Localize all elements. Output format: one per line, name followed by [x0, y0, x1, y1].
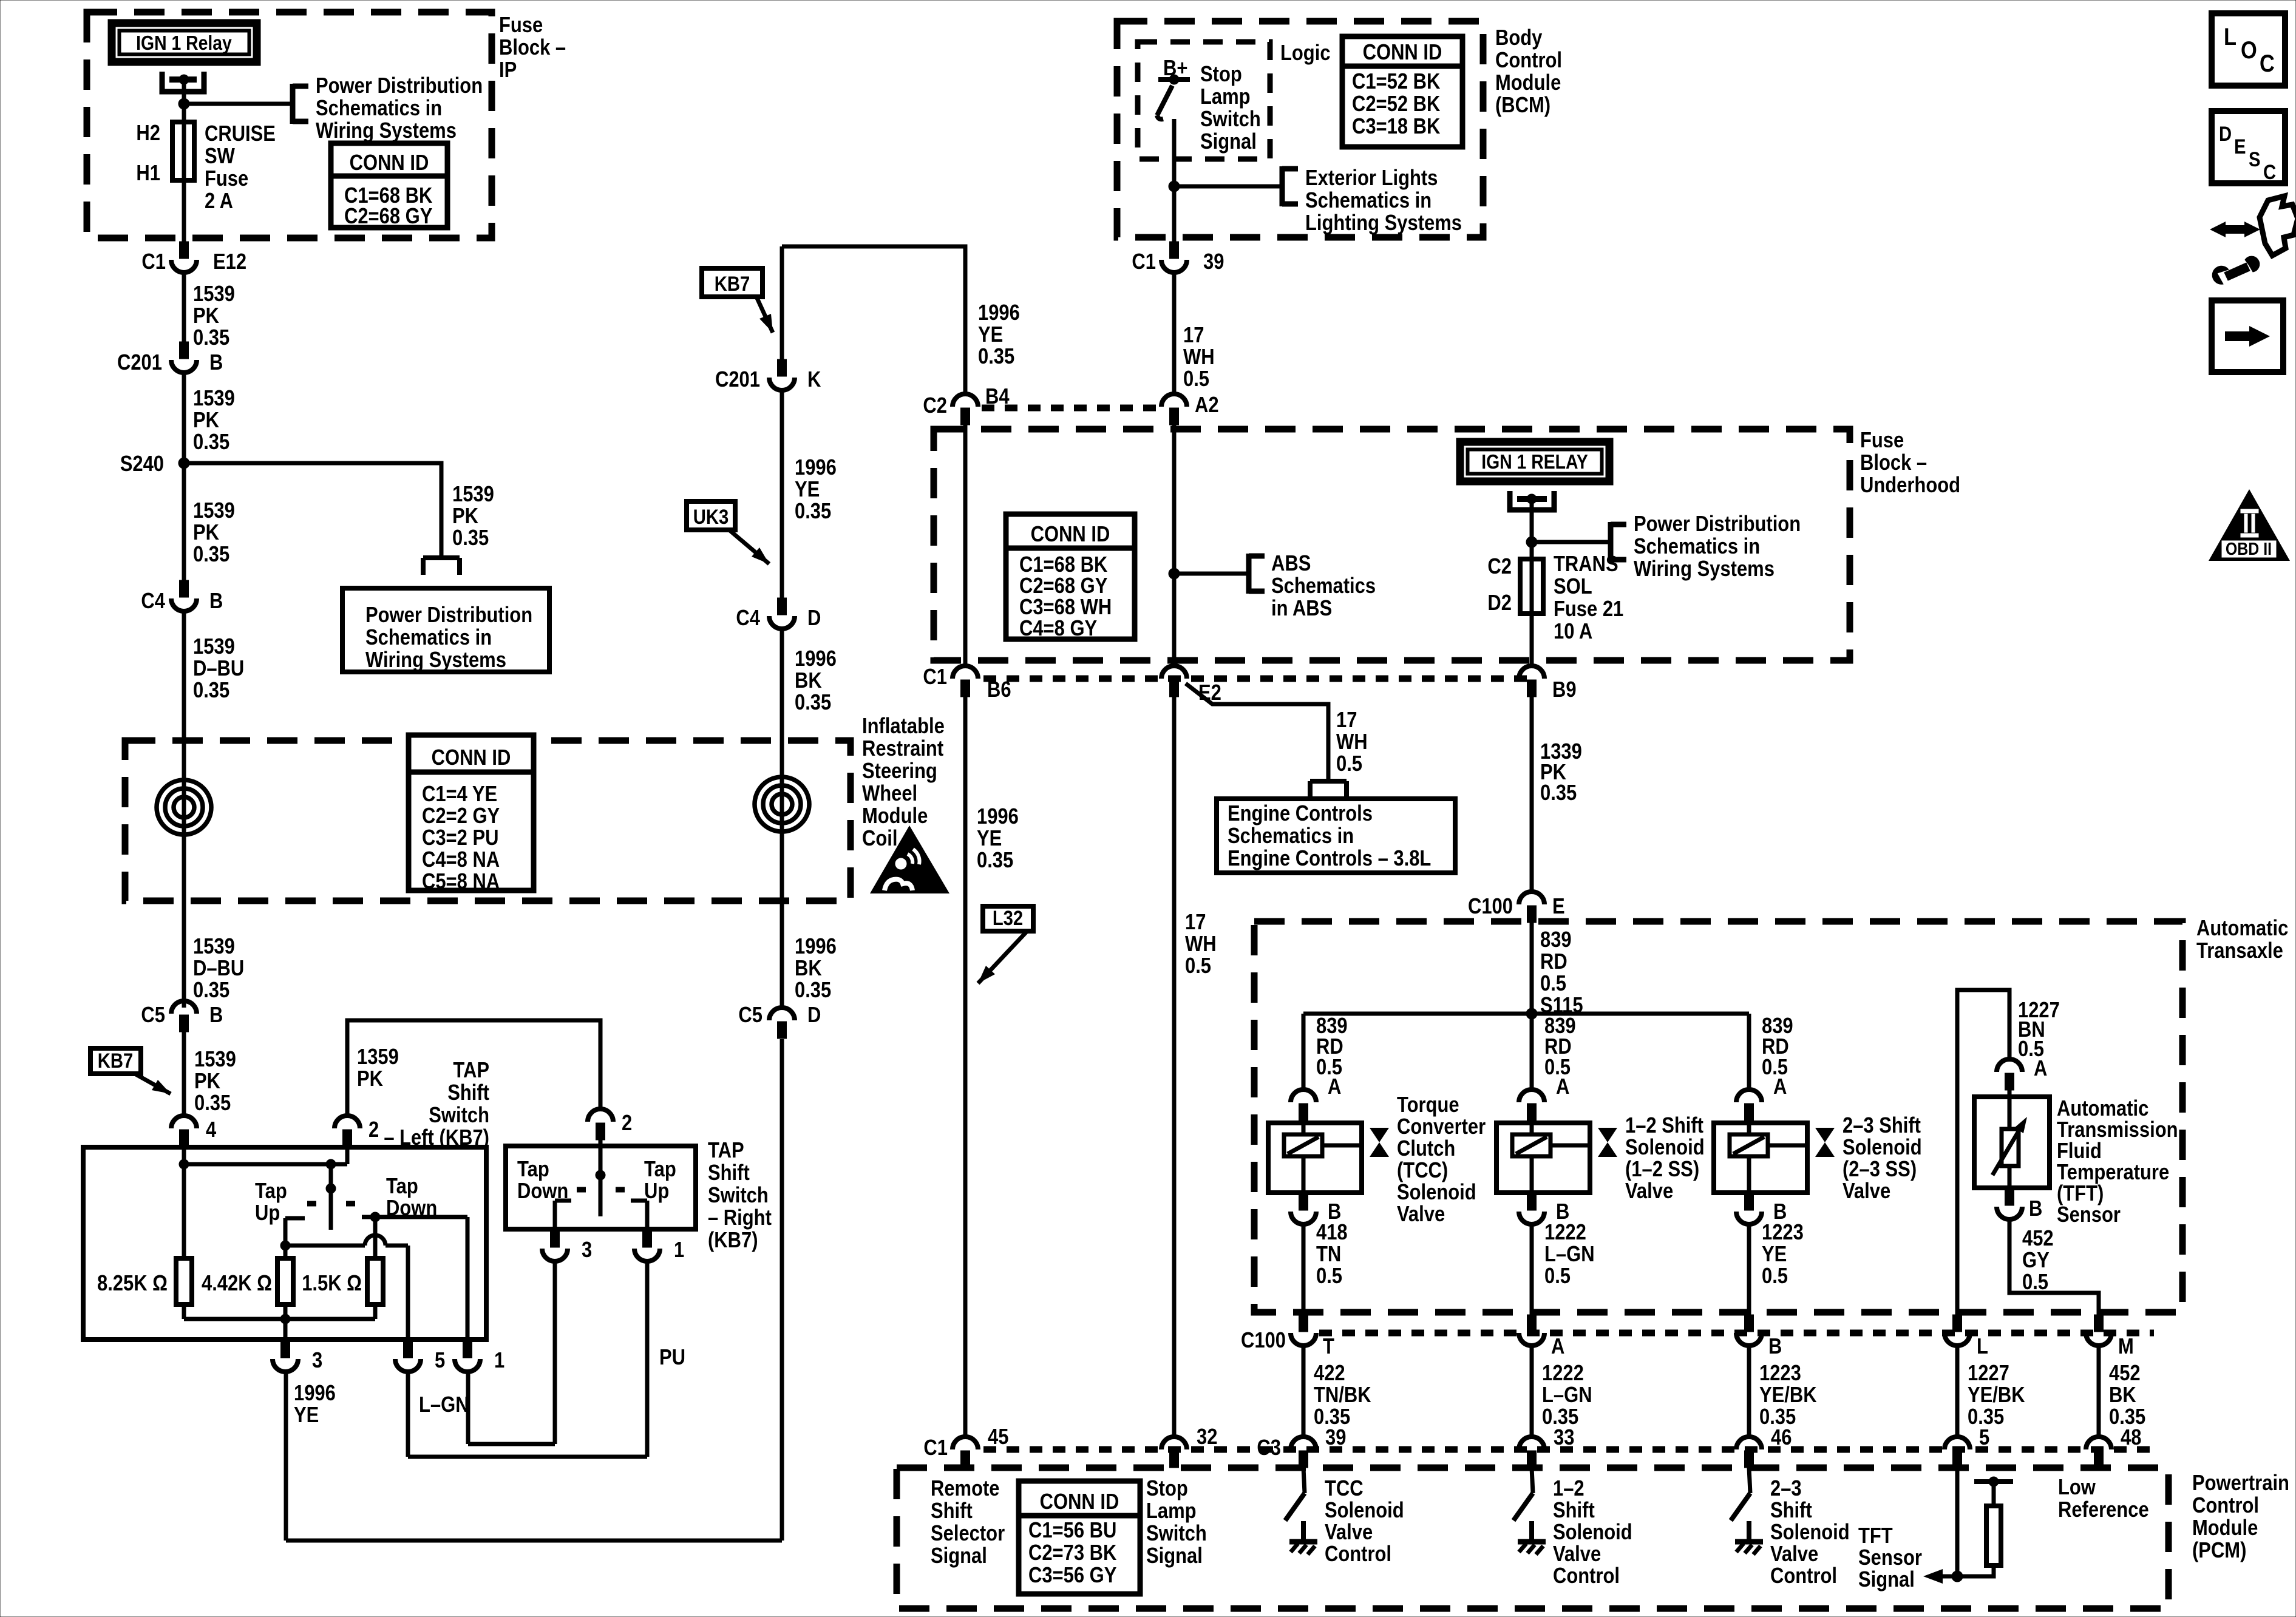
wire Tap Up contact to pin 5 with hop: [285, 1235, 408, 1341]
svg-text:0.35: 0.35: [978, 345, 1014, 369]
svg-text:Fuse: Fuse: [205, 167, 248, 191]
conn-id table SRS coil: [409, 735, 534, 894]
wire KB7 riser C5D down to bottom: [780, 1039, 784, 1541]
svg-text:RD: RD: [1540, 950, 1567, 974]
wire S115 rail: [1303, 1012, 1749, 1016]
svg-text:Reference: Reference: [2058, 1498, 2149, 1522]
svg-text:L: L: [2224, 23, 2237, 50]
svg-text:Power Distribution: Power Distribution: [365, 603, 532, 628]
connector B9: [1519, 666, 1577, 702]
svg-text:Restraint: Restraint: [862, 737, 943, 761]
svg-text:C4=8 NA: C4=8 NA: [422, 848, 500, 872]
wire C4 to SRS coil box: [182, 611, 186, 742]
label 17 WH 0.5 (below E2): [1185, 910, 1217, 978]
icon OBD II triangle: [2209, 489, 2290, 561]
svg-text:1: 1: [674, 1238, 684, 1263]
tag UK3 with arrow: [687, 501, 769, 564]
svg-text:Signal: Signal: [1200, 130, 1257, 154]
svg-text:A2: A2: [1195, 393, 1219, 418]
svg-text:UK3: UK3: [693, 505, 729, 529]
icon arrow box: [2212, 300, 2283, 372]
dashed box Automatic Transaxle: [1254, 921, 2182, 1312]
svg-text:B9: B9: [1552, 678, 1577, 702]
svg-text:Solenoid: Solenoid: [1397, 1181, 1476, 1205]
svg-text:Valve: Valve: [1397, 1202, 1445, 1227]
connector C3 pin 48: [2086, 1426, 2141, 1468]
svg-text:422: 422: [1314, 1361, 1345, 1386]
svg-text:1539: 1539: [193, 282, 235, 307]
icon car with arrows and wrench: [2210, 196, 2296, 284]
svg-text:Converter: Converter: [1397, 1115, 1486, 1139]
svg-text:Control: Control: [1495, 49, 1562, 73]
svg-text:E12: E12: [213, 250, 246, 274]
svg-text:C3: C3: [1257, 1436, 1281, 1460]
svg-text:1223: 1223: [1759, 1361, 1801, 1386]
conn-id table PCM: [1019, 1481, 1140, 1594]
wire B to C100 (2-3 Shift Solenoid Valve): [1747, 1224, 1751, 1316]
svg-text:WH: WH: [1185, 932, 1217, 957]
svg-text:(KB7): (KB7): [708, 1229, 758, 1253]
contact Tap Up: [285, 1218, 305, 1258]
svg-text:Control: Control: [1770, 1564, 1837, 1588]
label Tap Up (right box): [644, 1158, 676, 1204]
svg-text:IGN 1 Relay: IGN 1 Relay: [136, 32, 232, 55]
svg-text:Schematics: Schematics: [1271, 574, 1376, 598]
svg-text:3: 3: [582, 1238, 592, 1263]
wire relay to fuse: [182, 80, 186, 122]
svg-text:PK: PK: [193, 304, 219, 328]
wire n-loop KB7 top: [782, 246, 965, 395]
connector C100 pin M: [2086, 1315, 2134, 1359]
wire B9 to C100-E: [1530, 697, 1534, 892]
svg-text:Engine Controls – 3.8L: Engine Controls – 3.8L: [1228, 847, 1431, 871]
label Inflatable Restraint Steering Wheel Module Coil: [862, 714, 945, 851]
svg-text:IP: IP: [499, 58, 517, 83]
label PU (right pin1 wire): [659, 1346, 685, 1370]
svg-text:1996: 1996: [977, 805, 1019, 829]
svg-text:C1: C1: [1132, 250, 1156, 274]
label Remote Shift Selector Signal: [931, 1477, 1005, 1568]
svg-text:1539: 1539: [193, 499, 235, 523]
stub pin2 into left box: [345, 1147, 350, 1164]
svg-text:Wiring Systems: Wiring Systems: [1634, 557, 1775, 581]
svg-text:PK: PK: [452, 504, 478, 529]
svg-text:Underhood: Underhood: [1860, 473, 1960, 498]
label CRUISE SW Fuse 2 A: [205, 122, 276, 214]
wire bottom rail resistors: [184, 1317, 375, 1321]
wire branch power distribution (underhood): [1532, 540, 1611, 544]
svg-text:TAP: TAP: [708, 1139, 744, 1163]
dashed box Powertrain Control Module PCM: [897, 1468, 2169, 1609]
svg-text:C100: C100: [1468, 895, 1513, 919]
svg-text:Shift: Shift: [1553, 1499, 1595, 1523]
dashed box Fuse Block - IP: [87, 12, 492, 238]
node TFT signal junction: [1952, 1571, 1963, 1582]
svg-text:1539: 1539: [193, 635, 235, 659]
label Fuse Block - IP: [499, 13, 566, 83]
svg-text:L–GN: L–GN: [1542, 1383, 1592, 1408]
svg-text:8.25K Ω: 8.25K Ω: [97, 1272, 168, 1296]
dashed box Inflatable Restraint Steering Wheel Module Coil: [125, 741, 851, 901]
svg-text:Sensor: Sensor: [2057, 1203, 2121, 1227]
svg-text:OBD II: OBD II: [2226, 539, 2272, 558]
connector C3 pin 39: [1291, 1426, 1346, 1468]
svg-text:Up: Up: [644, 1179, 669, 1204]
svg-text:(2–3 SS): (2–3 SS): [1843, 1158, 1917, 1182]
connector B (2-3 Shift Solenoid Valve): [1736, 1193, 1787, 1224]
svg-text:CONN ID: CONN ID: [1363, 41, 1442, 65]
svg-text:(TFT): (TFT): [2057, 1182, 2104, 1206]
label 1996 YE 0.35 (above B4): [978, 301, 1020, 369]
svg-text:Tap: Tap: [644, 1158, 676, 1182]
label 1359 PK: [357, 1045, 399, 1091]
svg-text:Schematics in: Schematics in: [1305, 189, 1432, 213]
svg-text:Schematics in: Schematics in: [1634, 535, 1760, 559]
svg-text:Logic: Logic: [1280, 41, 1331, 66]
connector A (2-3 Shift Solenoid Valve): [1736, 1075, 1787, 1120]
label Automatic Transmission Fluid Temperature TFT Sensor: [2057, 1097, 2178, 1227]
svg-text:C1=4 YE: C1=4 YE: [422, 782, 497, 807]
svg-text:452: 452: [2022, 1227, 2054, 1251]
svg-text:YE: YE: [978, 323, 1003, 347]
ground TCC Solenoid Valve Control: [1289, 1521, 1317, 1554]
svg-text:0.35: 0.35: [193, 326, 229, 350]
dashed box stop lamp switch logic: [1138, 42, 1270, 159]
connector C201 K: [715, 359, 821, 392]
label 1996 YE 0.35 (below B6): [977, 805, 1019, 873]
relay contact symbol (underhood): [1510, 491, 1554, 510]
wire C5 to pin 4: [182, 1032, 186, 1116]
connector C3 pin 5: [1944, 1426, 1989, 1468]
svg-text:TN/BK: TN/BK: [1314, 1383, 1371, 1408]
connector C4 D: [736, 598, 821, 631]
svg-text:Control: Control: [2192, 1494, 2259, 1518]
label Stop Lamp Switch Signal (PCM): [1146, 1477, 1207, 1568]
label TRANS SOL Fuse 21 10 A: [1554, 552, 1623, 644]
label Tap Down (left box): [386, 1175, 437, 1221]
label 839 RD 0.5 (1-2 Shift Solenoid Valve): [1544, 1014, 1576, 1080]
svg-text:Solenoid: Solenoid: [1770, 1520, 1850, 1545]
wire relay to fuse (underhood): [1530, 499, 1534, 559]
svg-text:C2=73 BK: C2=73 BK: [1028, 1541, 1116, 1565]
node rail at pin4: [179, 1159, 189, 1169]
connector B (Torque Converter Clutch TCC Solenoid Valve): [1291, 1193, 1341, 1224]
svg-text:Stop: Stop: [1146, 1477, 1188, 1501]
svg-text:E: E: [1552, 895, 1565, 919]
svg-text:Valve: Valve: [1553, 1542, 1601, 1567]
svg-text:17: 17: [1336, 708, 1357, 733]
label B+: [1163, 56, 1187, 81]
wire fuse to B9: [1530, 614, 1534, 666]
svg-text:A: A: [1556, 1075, 1569, 1099]
svg-text:1223: 1223: [1762, 1221, 1804, 1245]
svg-text:YE/BK: YE/BK: [1759, 1383, 1817, 1408]
svg-text:32: 32: [1197, 1425, 1217, 1449]
svg-text:Tap: Tap: [517, 1158, 549, 1182]
connector C1 45: [923, 1425, 1008, 1468]
svg-text:B: B: [1768, 1335, 1782, 1359]
svg-text:Module: Module: [2192, 1516, 2258, 1541]
label 1996 YE (pin3 wire): [294, 1381, 336, 1428]
label 1539 PK 0.35 (below S240): [193, 499, 235, 567]
label 839 RD 0.5 S115: [1540, 928, 1583, 1018]
svg-text:– Right: – Right: [708, 1206, 772, 1230]
wire B to C100 (1-2 Shift Solenoid Valve): [1530, 1224, 1534, 1316]
connector pin 2 TAP right: [588, 1109, 632, 1140]
svg-text:C2=68 GY: C2=68 GY: [344, 205, 432, 229]
relay IGN 1 Relay (IP): [108, 19, 260, 66]
svg-text:5: 5: [435, 1349, 445, 1373]
svg-text:Lighting Systems: Lighting Systems: [1305, 211, 1462, 236]
svg-text:Coil: Coil: [862, 827, 897, 851]
wire B6 to pin45: [963, 697, 968, 1438]
svg-text:C4: C4: [141, 589, 165, 614]
svg-text:Stop: Stop: [1200, 63, 1242, 87]
svg-text:Torque: Torque: [1397, 1093, 1459, 1117]
switch 2-3 Shift Solenoid Valve Control driver: [1731, 1468, 1750, 1520]
connector C201 B: [117, 342, 223, 375]
label 17 WH 0.5 (engine controls): [1336, 708, 1368, 776]
svg-text:CONN ID: CONN ID: [432, 746, 511, 770]
svg-text:17: 17: [1183, 324, 1204, 348]
svg-text:Wheel: Wheel: [862, 782, 917, 806]
svg-text:0.35: 0.35: [193, 430, 229, 455]
connector C100 pin T: [1291, 1315, 1334, 1359]
wire fuse to C1: [182, 180, 186, 243]
wire S115 to solenoid A pin (Torque Converter Clutch TCC Solenoid Valve): [1302, 1014, 1306, 1090]
svg-text:TRANS: TRANS: [1554, 552, 1618, 577]
connector E2: [1161, 666, 1221, 705]
svg-text:3: 3: [312, 1349, 322, 1373]
sensor TFT thermistor: [1974, 1090, 2050, 1188]
svg-text:S240: S240: [120, 452, 164, 476]
svg-text:2–3: 2–3: [1770, 1477, 1802, 1501]
conn-id table BCM: [1342, 36, 1462, 147]
svg-text:K: K: [807, 368, 821, 392]
svg-text:10 A: 10 A: [1554, 620, 1592, 644]
stop lamp switch symbol: [1157, 75, 1190, 159]
svg-text:B: B: [2029, 1197, 2042, 1221]
svg-text:0.5: 0.5: [1544, 1264, 1571, 1289]
dotted connector row B6-E2-B9: [983, 676, 1530, 682]
svg-text:(BCM): (BCM): [1495, 93, 1550, 118]
relay contact symbol (IP): [162, 72, 204, 92]
label Tap Up (left box): [255, 1179, 287, 1225]
svg-text:Remote: Remote: [931, 1477, 1000, 1501]
connector C5 D: [738, 1003, 821, 1039]
svg-text:Valve: Valve: [1770, 1542, 1818, 1567]
wire through left coil: [182, 742, 186, 901]
wire E2 to pin 32: [1172, 697, 1177, 1438]
svg-text:Shift: Shift: [708, 1161, 750, 1185]
connector pin 1 TAP right: [634, 1230, 684, 1263]
solenoid coil 1-2 Shift Solenoid Valve: [1496, 1120, 1590, 1193]
svg-text:Fuse: Fuse: [1860, 429, 1904, 453]
svg-text:1: 1: [494, 1349, 504, 1373]
svg-text:Switch: Switch: [1146, 1522, 1207, 1546]
svg-text:Switch: Switch: [1200, 107, 1261, 132]
svg-text:45: 45: [988, 1425, 1008, 1449]
svg-text:Powertrain: Powertrain: [2192, 1471, 2289, 1496]
wire TFT B to M column: [2009, 1219, 2099, 1316]
svg-text:C2: C2: [1487, 555, 1512, 579]
svg-text:C201: C201: [117, 351, 162, 375]
box TAP Shift Switch - Left: [83, 1147, 486, 1340]
svg-text:A: A: [1551, 1335, 1564, 1359]
svg-text:M: M: [2118, 1335, 2134, 1359]
svg-text:17: 17: [1185, 910, 1206, 935]
valve symbol 2-3 Shift Solenoid Valve: [1815, 1128, 1835, 1157]
svg-text:C: C: [2263, 160, 2276, 184]
svg-text:YE: YE: [977, 827, 1002, 851]
connector B (1-2 Shift Solenoid Valve): [1519, 1193, 1569, 1224]
wire coil box to C5: [182, 901, 186, 1008]
wire C100 T to C3 row: [1302, 1346, 1306, 1438]
label Low Reference: [2058, 1476, 2149, 1522]
svg-text:BK: BK: [795, 957, 822, 981]
svg-text:0.35: 0.35: [193, 679, 229, 703]
label Torque Converter Clutch TCC Solenoid Valve: [1397, 1093, 1486, 1227]
svg-text:C3=2 PU: C3=2 PU: [422, 826, 498, 850]
wire B to C100 (Torque Converter Clutch TCC Solenoid Valve): [1302, 1224, 1306, 1316]
note ABS Schematics in ABS: [1271, 552, 1376, 621]
node rail at blade: [326, 1159, 336, 1169]
svg-text:2: 2: [369, 1118, 379, 1142]
svg-text:C1=52 BK: C1=52 BK: [1352, 70, 1440, 94]
svg-text:1359: 1359: [357, 1045, 399, 1070]
svg-text:Schematics in: Schematics in: [365, 626, 492, 650]
label Stop Lamp Switch Signal (BCM): [1200, 63, 1261, 154]
wire S240 down to C4: [182, 463, 186, 581]
connector 32: [1161, 1425, 1217, 1468]
label C3: [1257, 1436, 1281, 1460]
svg-text:Schematics in: Schematics in: [1228, 824, 1354, 849]
label 418 wire (Torque Converter Clutch TCC Solenoid Valve): [1316, 1221, 1348, 1289]
label wire 1223 (B): [1759, 1361, 1817, 1429]
solenoid coil 2-3 Shift Solenoid Valve: [1714, 1120, 1807, 1193]
label 452 GY 0.5 (TFT): [2022, 1227, 2054, 1295]
label 1996 BK 0.35 (below coil): [795, 935, 837, 1003]
svg-text:Solenoid: Solenoid: [1553, 1520, 1632, 1545]
conn-id table Fuse Block IP: [331, 143, 447, 229]
svg-text:in ABS: in ABS: [1271, 597, 1332, 621]
svg-text:C2: C2: [923, 394, 947, 418]
icon LOC box: [2212, 13, 2285, 86]
conn-id table underhood: [1006, 514, 1135, 641]
label wire 452 (M): [2109, 1361, 2145, 1429]
switch blade right TAP: [577, 1147, 625, 1216]
note Exterior Lights Schematics in Lighting Systems: [1305, 166, 1462, 236]
connector A (TFT): [1997, 1057, 2047, 1090]
valve symbol Torque Converter Clutch TCC Solenoid Valve: [1370, 1128, 1389, 1157]
label TAP Shift Switch - Right (KB7): [708, 1139, 772, 1253]
svg-text:B: B: [209, 589, 223, 614]
connector C1 E12: [141, 242, 246, 274]
svg-text:PK: PK: [193, 408, 219, 433]
svg-text:WH: WH: [1336, 730, 1368, 754]
wire 1539 PK C1 to C201: [182, 273, 186, 343]
svg-text:2 A: 2 A: [205, 189, 233, 214]
label 4.42K ohm: [202, 1272, 272, 1296]
svg-text:Schematics in: Schematics in: [316, 97, 442, 121]
svg-text:Control: Control: [1553, 1564, 1620, 1588]
switch 1-2 Shift Solenoid Valve Control driver: [1513, 1468, 1533, 1520]
svg-text:1996: 1996: [795, 647, 837, 671]
svg-text:Fuse 21: Fuse 21: [1554, 597, 1623, 622]
svg-text:Shift: Shift: [1770, 1499, 1812, 1523]
svg-text:C5: C5: [738, 1003, 763, 1028]
svg-text:Automatic: Automatic: [2057, 1097, 2148, 1121]
svg-text:1996: 1996: [978, 301, 1020, 325]
svg-text:C2=68 GY: C2=68 GY: [1019, 574, 1107, 598]
svg-text:C1: C1: [923, 1436, 948, 1460]
bracket ABS: [1249, 554, 1265, 594]
bracket power distribution (IP): [293, 84, 308, 124]
svg-text:Up: Up: [255, 1201, 280, 1225]
svg-text:CONN ID: CONN ID: [1031, 523, 1110, 547]
svg-text:1539: 1539: [193, 935, 235, 959]
box TAP Shift Switch - Right: [506, 1146, 696, 1229]
svg-text:L: L: [1977, 1335, 1988, 1359]
svg-text:1539: 1539: [194, 1048, 236, 1072]
svg-text:Automatic: Automatic: [2196, 917, 2288, 941]
wire C100E to S115: [1530, 923, 1534, 1014]
svg-text:C3=56 GY: C3=56 GY: [1028, 1564, 1116, 1588]
svg-text:0.5: 0.5: [1762, 1264, 1788, 1289]
label Fuse Block Underhood: [1860, 429, 1960, 498]
note Power Distribution Schematics (underhood): [1634, 512, 1801, 581]
svg-text:Wiring Systems: Wiring Systems: [365, 648, 506, 673]
svg-text:1–2: 1–2: [1553, 1477, 1584, 1501]
svg-text:4.42K Ω: 4.42K Ω: [202, 1272, 272, 1296]
node bottom rail at 4.42K: [280, 1314, 290, 1324]
svg-text:KB7: KB7: [98, 1049, 133, 1073]
svg-text:YE: YE: [294, 1403, 319, 1428]
svg-text:Body: Body: [1495, 26, 1543, 50]
svg-text:KB7: KB7: [715, 272, 750, 296]
svg-text:Power Distribution: Power Distribution: [316, 74, 483, 98]
valve symbol 1-2 Shift Solenoid Valve: [1598, 1128, 1617, 1157]
svg-text:YE: YE: [795, 478, 820, 502]
label 1539 PK 0.35 (KB7 wire): [194, 1048, 236, 1116]
svg-text:C4: C4: [736, 606, 760, 631]
relay IGN 1 RELAY (underhood): [1456, 438, 1613, 485]
svg-text:Tap: Tap: [386, 1175, 418, 1199]
svg-text:2–3 Shift: 2–3 Shift: [1843, 1114, 1921, 1138]
label 1227 BN 0.5 (TFT): [2018, 998, 2060, 1062]
svg-text:Transmission: Transmission: [2057, 1118, 2178, 1142]
wire E2 branch to engine controls: [1186, 683, 1328, 781]
svg-text:48: 48: [2121, 1426, 2141, 1450]
svg-text:Fuse: Fuse: [499, 13, 543, 38]
svg-text:Tap: Tap: [255, 1179, 287, 1204]
connector C1 B6: [923, 665, 1011, 702]
label 1539 PK 0.35 (below C201): [193, 387, 235, 455]
svg-text:1227: 1227: [1968, 1361, 2009, 1386]
svg-text:Clutch: Clutch: [1397, 1137, 1455, 1161]
connector pin 3 TAP right: [542, 1230, 592, 1263]
label 839 RD 0.5 (2-3 Shift Solenoid Valve): [1762, 1014, 1793, 1080]
label Automatic Transaxle: [2196, 917, 2288, 963]
svg-text:H1: H1: [136, 161, 160, 186]
svg-text:WH: WH: [1183, 345, 1215, 370]
note Power Distribution Schematics in Wiring Systems (IP): [316, 74, 483, 143]
svg-text:B: B: [209, 351, 223, 375]
wire coil to C5D: [780, 901, 784, 1008]
wire B4 to B6: [963, 425, 968, 666]
svg-text:CRUISE: CRUISE: [205, 122, 276, 146]
connector C1 39: [1132, 242, 1224, 274]
